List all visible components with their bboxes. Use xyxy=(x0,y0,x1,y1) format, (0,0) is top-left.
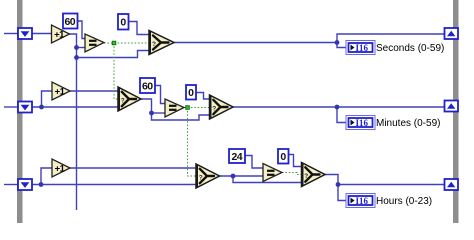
wire row2 down to indicator xyxy=(337,107,346,123)
indicator terminal I16 Minutes xyxy=(346,116,375,130)
shift register left row3 xyxy=(18,179,32,190)
svg-text:?: ? xyxy=(212,106,216,113)
boolean wire equal1 to select1 and down to select2 xyxy=(104,42,149,44)
svg-text:I16: I16 xyxy=(356,43,369,53)
wire row3 main to select3 bottom input xyxy=(32,184,196,186)
while-loop right border xyxy=(453,0,459,223)
select node row3 first xyxy=(196,164,220,188)
wire row3 left stub xyxy=(4,184,18,186)
indicator terminal I16 Hours xyxy=(346,194,375,208)
shift register right row3 xyxy=(445,179,459,190)
select node row3 second xyxy=(302,163,326,187)
junction row1 a xyxy=(74,45,79,50)
numeric constant 60 row1 xyxy=(63,14,78,29)
svg-text:?: ? xyxy=(152,41,156,48)
numeric constant 60 row2 xyxy=(140,78,155,93)
shift register left row2 xyxy=(18,102,32,113)
wire row2 main to select2 bottom input xyxy=(32,106,118,108)
boolean junction row1 xyxy=(112,41,116,45)
wire row1 down to indicator xyxy=(337,43,346,48)
shift register right row2 xyxy=(445,101,459,112)
equal node row3 xyxy=(263,164,282,182)
wire row3 bypass to select4 bottom input xyxy=(233,176,302,183)
svg-text:?: ? xyxy=(121,98,125,105)
numeric constant 0 row1 xyxy=(118,14,129,30)
svg-text:+1: +1 xyxy=(55,86,66,97)
boolean dotted wires xyxy=(104,43,302,176)
wire row2 up into +1 xyxy=(42,91,53,107)
boolean wire equal2 to select2b and down to select3 xyxy=(184,107,210,109)
shift register right row1 xyxy=(445,28,459,39)
wire select2 output down xyxy=(141,99,152,113)
increment node row3 xyxy=(52,159,70,177)
wire row3 +1 output to select3 top input xyxy=(70,167,196,169)
wire row1 shift register to +1 xyxy=(32,33,52,35)
svg-text:60: 60 xyxy=(65,16,76,28)
wire 60 constant to equal upper input xyxy=(78,21,86,39)
wire row3 down to indicator xyxy=(338,185,346,201)
wire row2 +1 output to select2 top input xyxy=(70,90,118,92)
wire row1 up to right shift register xyxy=(337,34,445,43)
svg-text:+1: +1 xyxy=(54,29,65,40)
svg-text:?: ? xyxy=(199,175,203,182)
svg-text:?: ? xyxy=(304,173,308,180)
wire row3 up into +1 xyxy=(41,168,52,185)
svg-text:Hours (0-23): Hours (0-23) xyxy=(376,196,432,207)
junction row3 output xyxy=(336,182,341,187)
svg-text:Minutes (0-59): Minutes (0-59) xyxy=(376,118,440,129)
svg-text:I16: I16 xyxy=(356,196,369,206)
numeric constant 0 row3 xyxy=(278,149,289,164)
boolean wire equal3 to select4 xyxy=(282,173,302,175)
svg-text:60: 60 xyxy=(142,81,153,93)
wire row2 left stub xyxy=(4,106,18,108)
svg-text:0: 0 xyxy=(120,17,126,29)
wire row1 left stub into shift register xyxy=(4,33,18,35)
junction row2 left xyxy=(39,105,44,110)
junction row1 b xyxy=(74,55,79,60)
wire row2 value to equal2 lower input xyxy=(152,112,166,114)
wire 0 constant3 to select4 top input xyxy=(289,155,302,167)
junction row3 mid xyxy=(231,174,236,179)
wire 0 constant to select1 top input xyxy=(129,22,150,35)
wire row2 bypass to select2b bottom input xyxy=(152,113,210,120)
wire row1 value to select1 bottom input xyxy=(77,51,150,58)
junction row2 output xyxy=(335,105,340,110)
wire row1 value to equal lower input xyxy=(77,47,86,49)
boolean junction row2 xyxy=(186,106,190,110)
equal node row1 xyxy=(85,34,104,52)
increment node row2 xyxy=(52,82,70,100)
svg-text:I16: I16 xyxy=(356,118,369,128)
wire select4 output to corner xyxy=(325,175,338,185)
numeric constant 0 row2 xyxy=(186,85,196,100)
wire select2b output to right xyxy=(233,106,445,108)
equal node row2 xyxy=(165,99,184,117)
wire row1 +1 output down long vertical xyxy=(70,34,77,210)
svg-text:+1: +1 xyxy=(55,163,66,174)
indicator terminal I16 Seconds xyxy=(346,41,375,55)
wire select1 output to right xyxy=(174,42,337,44)
svg-text:0: 0 xyxy=(280,151,286,163)
while-loop left border xyxy=(17,0,23,223)
svg-text:24: 24 xyxy=(232,151,243,163)
junction row2 mid xyxy=(149,111,154,116)
wire 0 constant2 to select2b top input xyxy=(196,93,210,100)
wire 24 constant to equal3 upper input xyxy=(245,156,263,169)
junction row1 output xyxy=(335,40,340,45)
select node row2 second xyxy=(210,95,234,119)
wire row3 to right shift register xyxy=(338,184,445,186)
select node row1 xyxy=(149,31,174,55)
increment node row1 xyxy=(52,25,70,43)
svg-text:Seconds (0-59): Seconds (0-59) xyxy=(376,43,444,54)
junction row3 left xyxy=(39,182,44,187)
numeric constant 24 row3 xyxy=(229,149,245,163)
shift register left row1 xyxy=(18,28,32,39)
svg-text:0: 0 xyxy=(188,87,194,99)
wire 60 constant2 to equal2 upper input xyxy=(155,86,165,104)
wire select3 output to equal3 lower input xyxy=(220,175,264,177)
select node row2 first xyxy=(118,87,141,111)
